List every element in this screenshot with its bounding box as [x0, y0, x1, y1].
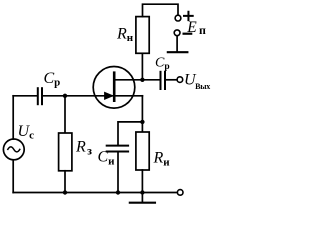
- wire gate lead to transistor: [65, 95, 113, 97]
- transistor VT source lead: [114, 95, 142, 97]
- wire input line from left corner to input capacitor: [13, 95, 36, 97]
- wire left vertical from input line down to source Uc top: [12, 96, 14, 139]
- node input junction dot: [63, 94, 67, 98]
- svg-text:Eп: Eп: [186, 19, 206, 37]
- wire from source node down to resistor Ri: [141, 122, 143, 132]
- wire drain node to output capacitor: [142, 79, 158, 81]
- svg-text:UВых: UВых: [184, 72, 210, 92]
- svg-text:Rн: Rн: [116, 26, 134, 45]
- terminal Uout circle: [177, 77, 183, 83]
- minus sign: [184, 33, 192, 35]
- source Uc sine wave: [8, 147, 20, 152]
- wire from Rz bottom to bottom wire: [64, 171, 66, 193]
- node Ci bottom junction dot: [116, 190, 120, 194]
- capacitor Ci bottom plate: [107, 151, 128, 153]
- wire from output capacitor to output terminal: [167, 79, 177, 81]
- svg-text:Rз: Rз: [75, 139, 92, 158]
- ground symbol bar: [130, 202, 155, 204]
- terminal plus circle: [175, 15, 181, 21]
- svg-text:Uс: Uс: [18, 123, 35, 142]
- capacitor Cp input left plate: [37, 88, 39, 104]
- terminal minus circle of supply Ep: [174, 30, 180, 36]
- resistor Rn body: [136, 17, 149, 54]
- source Uc circle: [3, 139, 24, 160]
- capacitor Cp output right plate: [164, 72, 166, 89]
- node source junction dot: [140, 120, 144, 124]
- node drain junction dot: [140, 78, 144, 82]
- resistor Ri body: [136, 132, 149, 170]
- wire from Uc bottom down to bottom wire: [12, 160, 14, 193]
- wire bottom rail: [13, 192, 177, 194]
- ground symbol stub: [141, 193, 143, 203]
- node Ri bottom junction dot: [140, 190, 144, 194]
- wire from input capacitor to gate node: [44, 95, 65, 97]
- transistor VT drain lead: [114, 79, 142, 81]
- wire Rn top to top rail and to plus terminal: [143, 4, 179, 16]
- svg-text:Rи: Rи: [153, 150, 171, 169]
- wire from Ri bottom to bottom wire: [141, 170, 143, 193]
- wire drain node up to resistor Rn: [141, 53, 143, 80]
- wire from Ci bottom plate down to bottom wire: [117, 152, 119, 192]
- wire from input node down to resistor Rz: [64, 96, 66, 133]
- capacitor Ci top plate: [107, 145, 128, 147]
- wire from minus terminal down to ground: [176, 36, 178, 52]
- wire source lead bend down to source node: [141, 96, 143, 122]
- capacitor Cp output left plate: [160, 72, 162, 89]
- terminal bottom right circle: [177, 190, 183, 196]
- transistor VT gate arrow: [105, 92, 113, 99]
- svg-text:Cр: Cр: [155, 56, 170, 72]
- wire from source node left and down to capacitor Ci: [118, 122, 142, 145]
- ground bar for supply Ep: [168, 51, 188, 53]
- plus sign: [184, 12, 193, 20]
- svg-text:Cр: Cр: [44, 70, 61, 89]
- resistor Rz body: [59, 133, 72, 171]
- transistor VT circle: [93, 67, 135, 109]
- node Rz bottom junction dot: [63, 190, 67, 194]
- transistor VT channel bar: [113, 73, 116, 101]
- capacitor Cp input right plate: [41, 88, 43, 104]
